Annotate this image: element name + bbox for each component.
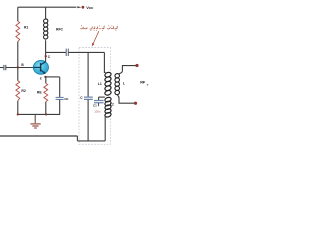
Vcc arrowhead <box>77 6 81 8</box>
wire L top to RF <box>119 66 136 74</box>
wire emitter right <box>46 76 60 78</box>
node rail-RE <box>45 113 47 115</box>
svg-text:R2: R2 <box>21 89 25 93</box>
wire top rail <box>18 6 77 8</box>
wire RFC top <box>45 7 47 19</box>
svg-text:L: L <box>123 82 125 86</box>
wire CE branch down <box>59 77 61 97</box>
inductor L1 <box>104 72 111 96</box>
node E <box>44 76 46 78</box>
svg-text:E: E <box>40 77 42 81</box>
wire CE to rail <box>59 100 61 115</box>
svg-text:L2: L2 <box>110 103 114 107</box>
capacitor C1 <box>98 97 100 100</box>
resistor R2 <box>16 81 20 101</box>
svg-text:L1: L1 <box>98 82 102 86</box>
wire box bottom rail <box>77 140 105 142</box>
wire R2 to rail <box>17 101 19 115</box>
node C <box>45 55 47 57</box>
wire left vertical top <box>17 7 19 21</box>
wire L2 bottom <box>104 116 107 141</box>
inductor RFC <box>43 18 49 39</box>
wire L bottom to RF <box>117 95 134 103</box>
resistor RE <box>44 83 48 101</box>
node Vcc dot <box>82 6 85 9</box>
capacitor C branch <box>87 52 89 96</box>
node rail-R2 <box>17 113 19 115</box>
wire node B to R2 <box>17 67 19 80</box>
inductor L secondary <box>114 73 120 95</box>
svg-text:C1: C1 <box>93 103 97 107</box>
annotation text (Persian: phase shift network) <box>80 26 117 29</box>
wire center tap <box>99 96 105 98</box>
svg-text:RFC: RFC <box>56 27 64 31</box>
capacitor CE <box>56 97 64 99</box>
svg-text:Vcc: Vcc <box>86 5 94 10</box>
node RF top <box>135 64 138 67</box>
annotation arrow <box>93 31 99 43</box>
wire R1 to node B <box>17 42 19 68</box>
wire collector out <box>46 51 66 53</box>
resistor R1 <box>16 21 20 41</box>
node B <box>17 66 19 68</box>
wire ground rail <box>18 113 60 115</box>
wire bottom left <box>0 135 77 137</box>
svg-text:RE: RE <box>37 91 42 95</box>
wire top to L1 <box>104 52 105 72</box>
wire RFC to collector <box>45 40 47 62</box>
node RF bottom <box>134 102 137 105</box>
wire base <box>6 67 34 69</box>
svg-text:CE: CE <box>64 97 68 101</box>
wire into box <box>69 51 105 53</box>
svg-text:R1: R1 <box>24 25 28 29</box>
capacitor input (left edge) <box>0 67 3 69</box>
dashed box: phase shift network <box>79 48 110 145</box>
ground <box>30 115 40 128</box>
transistor Q1 <box>33 61 48 75</box>
capacitor coupling <box>66 49 68 56</box>
wire emitter down <box>45 77 47 84</box>
wire RE to rail <box>45 102 47 115</box>
svg-text:100n: 100n <box>94 110 101 114</box>
svg-text:RF: RF <box>140 80 146 84</box>
inductor L2 <box>104 97 111 118</box>
wire bottom step <box>76 136 78 141</box>
